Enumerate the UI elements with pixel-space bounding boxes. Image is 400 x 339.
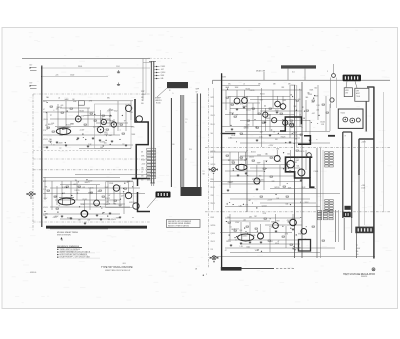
svg-text:C540: C540 bbox=[246, 125, 250, 127]
svg-text:SWP: SWP bbox=[109, 135, 113, 137]
svg-text:V1013: V1013 bbox=[211, 115, 215, 117]
svg-text:B1021: B1021 bbox=[251, 152, 256, 154]
svg-text:.047: .047 bbox=[311, 113, 314, 115]
svg-text:47: 47 bbox=[109, 195, 111, 197]
svg-text:V552: V552 bbox=[114, 110, 118, 112]
svg-text:.001: .001 bbox=[82, 187, 85, 189]
svg-text:+100V: +100V bbox=[356, 248, 360, 250]
svg-text:C1026: C1026 bbox=[242, 106, 247, 108]
svg-text:V: V bbox=[327, 71, 328, 73]
svg-text:T1040: T1040 bbox=[341, 112, 346, 114]
svg-text:DLY: DLY bbox=[30, 64, 33, 66]
svg-text:SWP: SWP bbox=[141, 91, 144, 93]
svg-text:V1013: V1013 bbox=[211, 203, 215, 205]
svg-text:.01: .01 bbox=[229, 227, 231, 229]
svg-text:D1015: D1015 bbox=[250, 90, 255, 92]
svg-text:.01: .01 bbox=[141, 172, 143, 174]
svg-text:SWEEP B: SWEEP B bbox=[361, 276, 367, 278]
svg-text:V552: V552 bbox=[96, 127, 100, 129]
svg-text:V1013: V1013 bbox=[211, 241, 215, 243]
svg-text:V1013: V1013 bbox=[67, 218, 72, 220]
svg-text:+100V: +100V bbox=[141, 94, 145, 96]
svg-text:2.2K: 2.2K bbox=[43, 189, 46, 191]
svg-text:SW510: SW510 bbox=[129, 202, 134, 204]
svg-text:V552: V552 bbox=[293, 162, 297, 164]
svg-text:560: 560 bbox=[108, 219, 111, 221]
svg-text:R1025: R1025 bbox=[79, 110, 84, 112]
svg-text:8.2K: 8.2K bbox=[43, 181, 46, 183]
svg-text:.01: .01 bbox=[96, 128, 98, 130]
svg-text:.047: .047 bbox=[87, 220, 90, 222]
svg-text:C1026: C1026 bbox=[314, 171, 319, 173]
svg-text:B1021: B1021 bbox=[85, 182, 90, 184]
svg-text:SWP: SWP bbox=[296, 160, 300, 162]
svg-text:TP: TP bbox=[124, 120, 126, 122]
svg-text:C540: C540 bbox=[257, 154, 261, 156]
svg-text:6DJ8: 6DJ8 bbox=[231, 135, 235, 137]
svg-text:Q1014: Q1014 bbox=[242, 235, 247, 237]
svg-text:Q1014: Q1014 bbox=[234, 229, 239, 231]
svg-text:68K: 68K bbox=[273, 83, 276, 85]
svg-text:68K: 68K bbox=[258, 83, 261, 85]
svg-text:V1013: V1013 bbox=[43, 207, 48, 209]
svg-text:Q1014: Q1014 bbox=[246, 109, 251, 111]
svg-text:R1025: R1025 bbox=[281, 137, 286, 139]
svg-text:68K: 68K bbox=[288, 83, 291, 85]
svg-text:560: 560 bbox=[211, 133, 214, 135]
svg-text:.047: .047 bbox=[260, 131, 263, 133]
svg-text:47: 47 bbox=[58, 205, 60, 207]
svg-text:.047: .047 bbox=[107, 111, 110, 113]
svg-text:2: 2 bbox=[206, 274, 207, 276]
svg-text:Q1014: Q1014 bbox=[244, 128, 249, 130]
svg-text:SWP: SWP bbox=[257, 162, 261, 164]
svg-text:.001: .001 bbox=[270, 241, 273, 243]
svg-text:SWEEP GENERATOR CIRCUIT DIAG B: SWEEP GENERATOR CIRCUIT DIAG B bbox=[60, 251, 91, 254]
svg-text:C1026: C1026 bbox=[251, 235, 256, 237]
svg-text:R1025: R1025 bbox=[226, 241, 231, 243]
svg-text:-150V: -150V bbox=[43, 198, 47, 200]
svg-text:D501: D501 bbox=[78, 66, 82, 68]
svg-text:V1013: V1013 bbox=[245, 88, 250, 90]
svg-text:180K: 180K bbox=[141, 156, 144, 158]
svg-text:EXT: EXT bbox=[30, 82, 33, 84]
svg-text:R1025: R1025 bbox=[211, 124, 215, 126]
svg-text:C540: C540 bbox=[246, 246, 250, 248]
svg-text:SWP: SWP bbox=[105, 187, 109, 189]
svg-text:.01: .01 bbox=[235, 239, 237, 241]
svg-text:TP: TP bbox=[141, 100, 143, 102]
svg-text:LENGTH: LENGTH bbox=[155, 100, 162, 102]
svg-text:V1013: V1013 bbox=[43, 139, 48, 141]
svg-text:4385-00: 4385-00 bbox=[30, 272, 36, 274]
svg-text:D1015: D1015 bbox=[260, 180, 265, 182]
svg-text:68K: 68K bbox=[141, 97, 144, 99]
svg-text:T1040: T1040 bbox=[356, 96, 360, 98]
svg-text:47: 47 bbox=[225, 250, 227, 252]
svg-text:SWP: SWP bbox=[282, 100, 286, 102]
svg-text:P10: P10 bbox=[189, 149, 192, 151]
svg-text:CRT: CRT bbox=[345, 93, 348, 95]
svg-text:+100V: +100V bbox=[141, 164, 145, 166]
svg-text:TYPE 547 OSCILLOSCOPE: TYPE 547 OSCILLOSCOPE bbox=[101, 266, 133, 269]
svg-text:CRT: CRT bbox=[356, 90, 359, 92]
svg-text:SEL: SEL bbox=[57, 128, 60, 130]
svg-text:6DJ8: 6DJ8 bbox=[211, 217, 215, 219]
svg-text:V1013: V1013 bbox=[269, 226, 274, 228]
svg-text:SWP: SWP bbox=[118, 205, 122, 207]
svg-text:R1040: R1040 bbox=[156, 102, 161, 104]
svg-text:C1026: C1026 bbox=[254, 180, 259, 182]
svg-text:100: 100 bbox=[298, 99, 301, 101]
svg-text:SW510: SW510 bbox=[299, 151, 304, 153]
svg-text:Q1014: Q1014 bbox=[161, 72, 166, 74]
svg-text:47: 47 bbox=[278, 241, 280, 243]
svg-text:.01: .01 bbox=[58, 98, 60, 100]
svg-text:C1026: C1026 bbox=[228, 182, 233, 184]
svg-text:47: 47 bbox=[43, 109, 45, 111]
svg-text:560: 560 bbox=[287, 153, 290, 155]
svg-text:SW510: SW510 bbox=[211, 151, 216, 153]
svg-text:Q1014: Q1014 bbox=[64, 127, 69, 129]
svg-text:SW510: SW510 bbox=[288, 124, 293, 126]
svg-text:.01: .01 bbox=[97, 191, 99, 193]
svg-text:100: 100 bbox=[356, 254, 359, 256]
svg-text:SWP: SWP bbox=[196, 89, 199, 91]
svg-text:6DJ8: 6DJ8 bbox=[302, 187, 306, 189]
svg-text:469-1: 469-1 bbox=[123, 263, 127, 265]
svg-text:.001: .001 bbox=[243, 219, 246, 221]
svg-text:100: 100 bbox=[52, 123, 55, 125]
svg-text:SWITCH SHOWN: SWITCH SHOWN bbox=[57, 235, 71, 237]
svg-text:V859: V859 bbox=[345, 90, 349, 92]
svg-text:V552: V552 bbox=[104, 132, 108, 134]
svg-text:TP: TP bbox=[50, 115, 52, 117]
svg-text:47: 47 bbox=[45, 125, 47, 127]
svg-text:.047: .047 bbox=[120, 196, 123, 198]
svg-text:560: 560 bbox=[296, 247, 299, 249]
svg-text:D1015: D1015 bbox=[75, 190, 80, 192]
svg-text:SWEEP: SWEEP bbox=[155, 97, 161, 99]
svg-text:6DJ8: 6DJ8 bbox=[43, 101, 47, 103]
svg-text:33K: 33K bbox=[141, 176, 144, 178]
svg-text:100: 100 bbox=[43, 147, 46, 149]
svg-text:SWP: SWP bbox=[88, 192, 92, 194]
svg-text:Q1014: Q1014 bbox=[211, 233, 216, 235]
svg-text:SWP: SWP bbox=[298, 233, 302, 235]
svg-text:.001: .001 bbox=[316, 110, 319, 112]
svg-text:.01: .01 bbox=[55, 196, 57, 198]
svg-text:560: 560 bbox=[100, 147, 103, 149]
svg-text:D1015: D1015 bbox=[229, 112, 234, 114]
svg-text:Q1014: Q1014 bbox=[291, 219, 296, 221]
svg-text:B1021: B1021 bbox=[266, 118, 271, 120]
svg-text:TP: TP bbox=[356, 245, 358, 247]
svg-text:560: 560 bbox=[141, 180, 144, 182]
svg-text:SWP: SWP bbox=[211, 97, 214, 99]
svg-text:J10: J10 bbox=[172, 144, 175, 146]
svg-text:SEL: SEL bbox=[45, 214, 48, 216]
svg-text:SEL: SEL bbox=[44, 186, 47, 188]
svg-text:6DJ8: 6DJ8 bbox=[275, 243, 279, 245]
svg-text:D1015: D1015 bbox=[320, 121, 325, 123]
svg-text:.047: .047 bbox=[248, 200, 251, 202]
svg-text:V552: V552 bbox=[305, 202, 309, 204]
svg-text:SEL: SEL bbox=[305, 97, 308, 99]
svg-text:47: 47 bbox=[246, 150, 248, 152]
svg-text:SW510: SW510 bbox=[57, 107, 62, 109]
svg-text:SW510: SW510 bbox=[274, 187, 279, 189]
svg-text:V1013: V1013 bbox=[82, 199, 87, 201]
svg-text:TP: TP bbox=[122, 144, 124, 146]
svg-text:TP: TP bbox=[59, 148, 61, 150]
svg-text:C501: C501 bbox=[116, 66, 120, 68]
svg-text:SW510: SW510 bbox=[211, 164, 216, 166]
svg-text:R1025: R1025 bbox=[291, 85, 296, 87]
svg-text:C1045: C1045 bbox=[361, 188, 365, 190]
svg-text:R1025: R1025 bbox=[111, 219, 116, 221]
svg-text:CF: CF bbox=[196, 92, 198, 94]
svg-text:C502: C502 bbox=[70, 75, 74, 77]
svg-text:SEL: SEL bbox=[356, 251, 359, 253]
svg-text:HORIZ DISPLAY SWITCH WAFERS: HORIZ DISPLAY SWITCH WAFERS bbox=[60, 253, 88, 256]
svg-text:18: 18 bbox=[195, 269, 197, 271]
svg-text:D1015: D1015 bbox=[89, 187, 94, 189]
svg-text:+225: +225 bbox=[55, 74, 59, 76]
svg-text:R536: R536 bbox=[109, 183, 113, 185]
svg-text:P: P bbox=[186, 159, 187, 161]
svg-text:560: 560 bbox=[314, 87, 317, 89]
svg-text:V1013: V1013 bbox=[161, 66, 166, 68]
svg-text:SWP: SWP bbox=[271, 221, 275, 223]
svg-text:HIGH-VOLTAGE REGULATOR: HIGH-VOLTAGE REGULATOR bbox=[343, 273, 375, 276]
svg-text:V1013: V1013 bbox=[105, 198, 110, 200]
svg-text:R536: R536 bbox=[110, 121, 114, 123]
svg-text:.001: .001 bbox=[60, 105, 63, 107]
svg-text:Q1014: Q1014 bbox=[262, 206, 267, 208]
svg-text:SWP: SWP bbox=[73, 101, 77, 103]
svg-text:SEL: SEL bbox=[141, 103, 144, 105]
svg-text:Q1014: Q1014 bbox=[43, 119, 48, 121]
svg-text:SEL: SEL bbox=[228, 83, 231, 85]
svg-text:.047: .047 bbox=[161, 69, 164, 71]
svg-text:R1025: R1025 bbox=[141, 160, 145, 162]
svg-text:100: 100 bbox=[259, 175, 262, 177]
svg-text:D1015: D1015 bbox=[249, 157, 254, 159]
svg-text:SWP: SWP bbox=[116, 217, 120, 219]
svg-text:B1021: B1021 bbox=[260, 93, 265, 95]
svg-text:27K: 27K bbox=[43, 130, 46, 132]
svg-text:C540: C540 bbox=[104, 204, 108, 206]
svg-text:.01: .01 bbox=[243, 83, 245, 85]
svg-text:.001: .001 bbox=[73, 184, 76, 186]
svg-text:B: B bbox=[186, 122, 187, 124]
svg-text:R1025: R1025 bbox=[211, 187, 215, 189]
svg-text:SW510: SW510 bbox=[211, 225, 216, 227]
svg-text:DL1: DL1 bbox=[292, 72, 295, 74]
svg-text:SEL: SEL bbox=[107, 97, 110, 99]
svg-text:C1026: C1026 bbox=[295, 158, 300, 160]
svg-text:12K: 12K bbox=[211, 249, 214, 251]
